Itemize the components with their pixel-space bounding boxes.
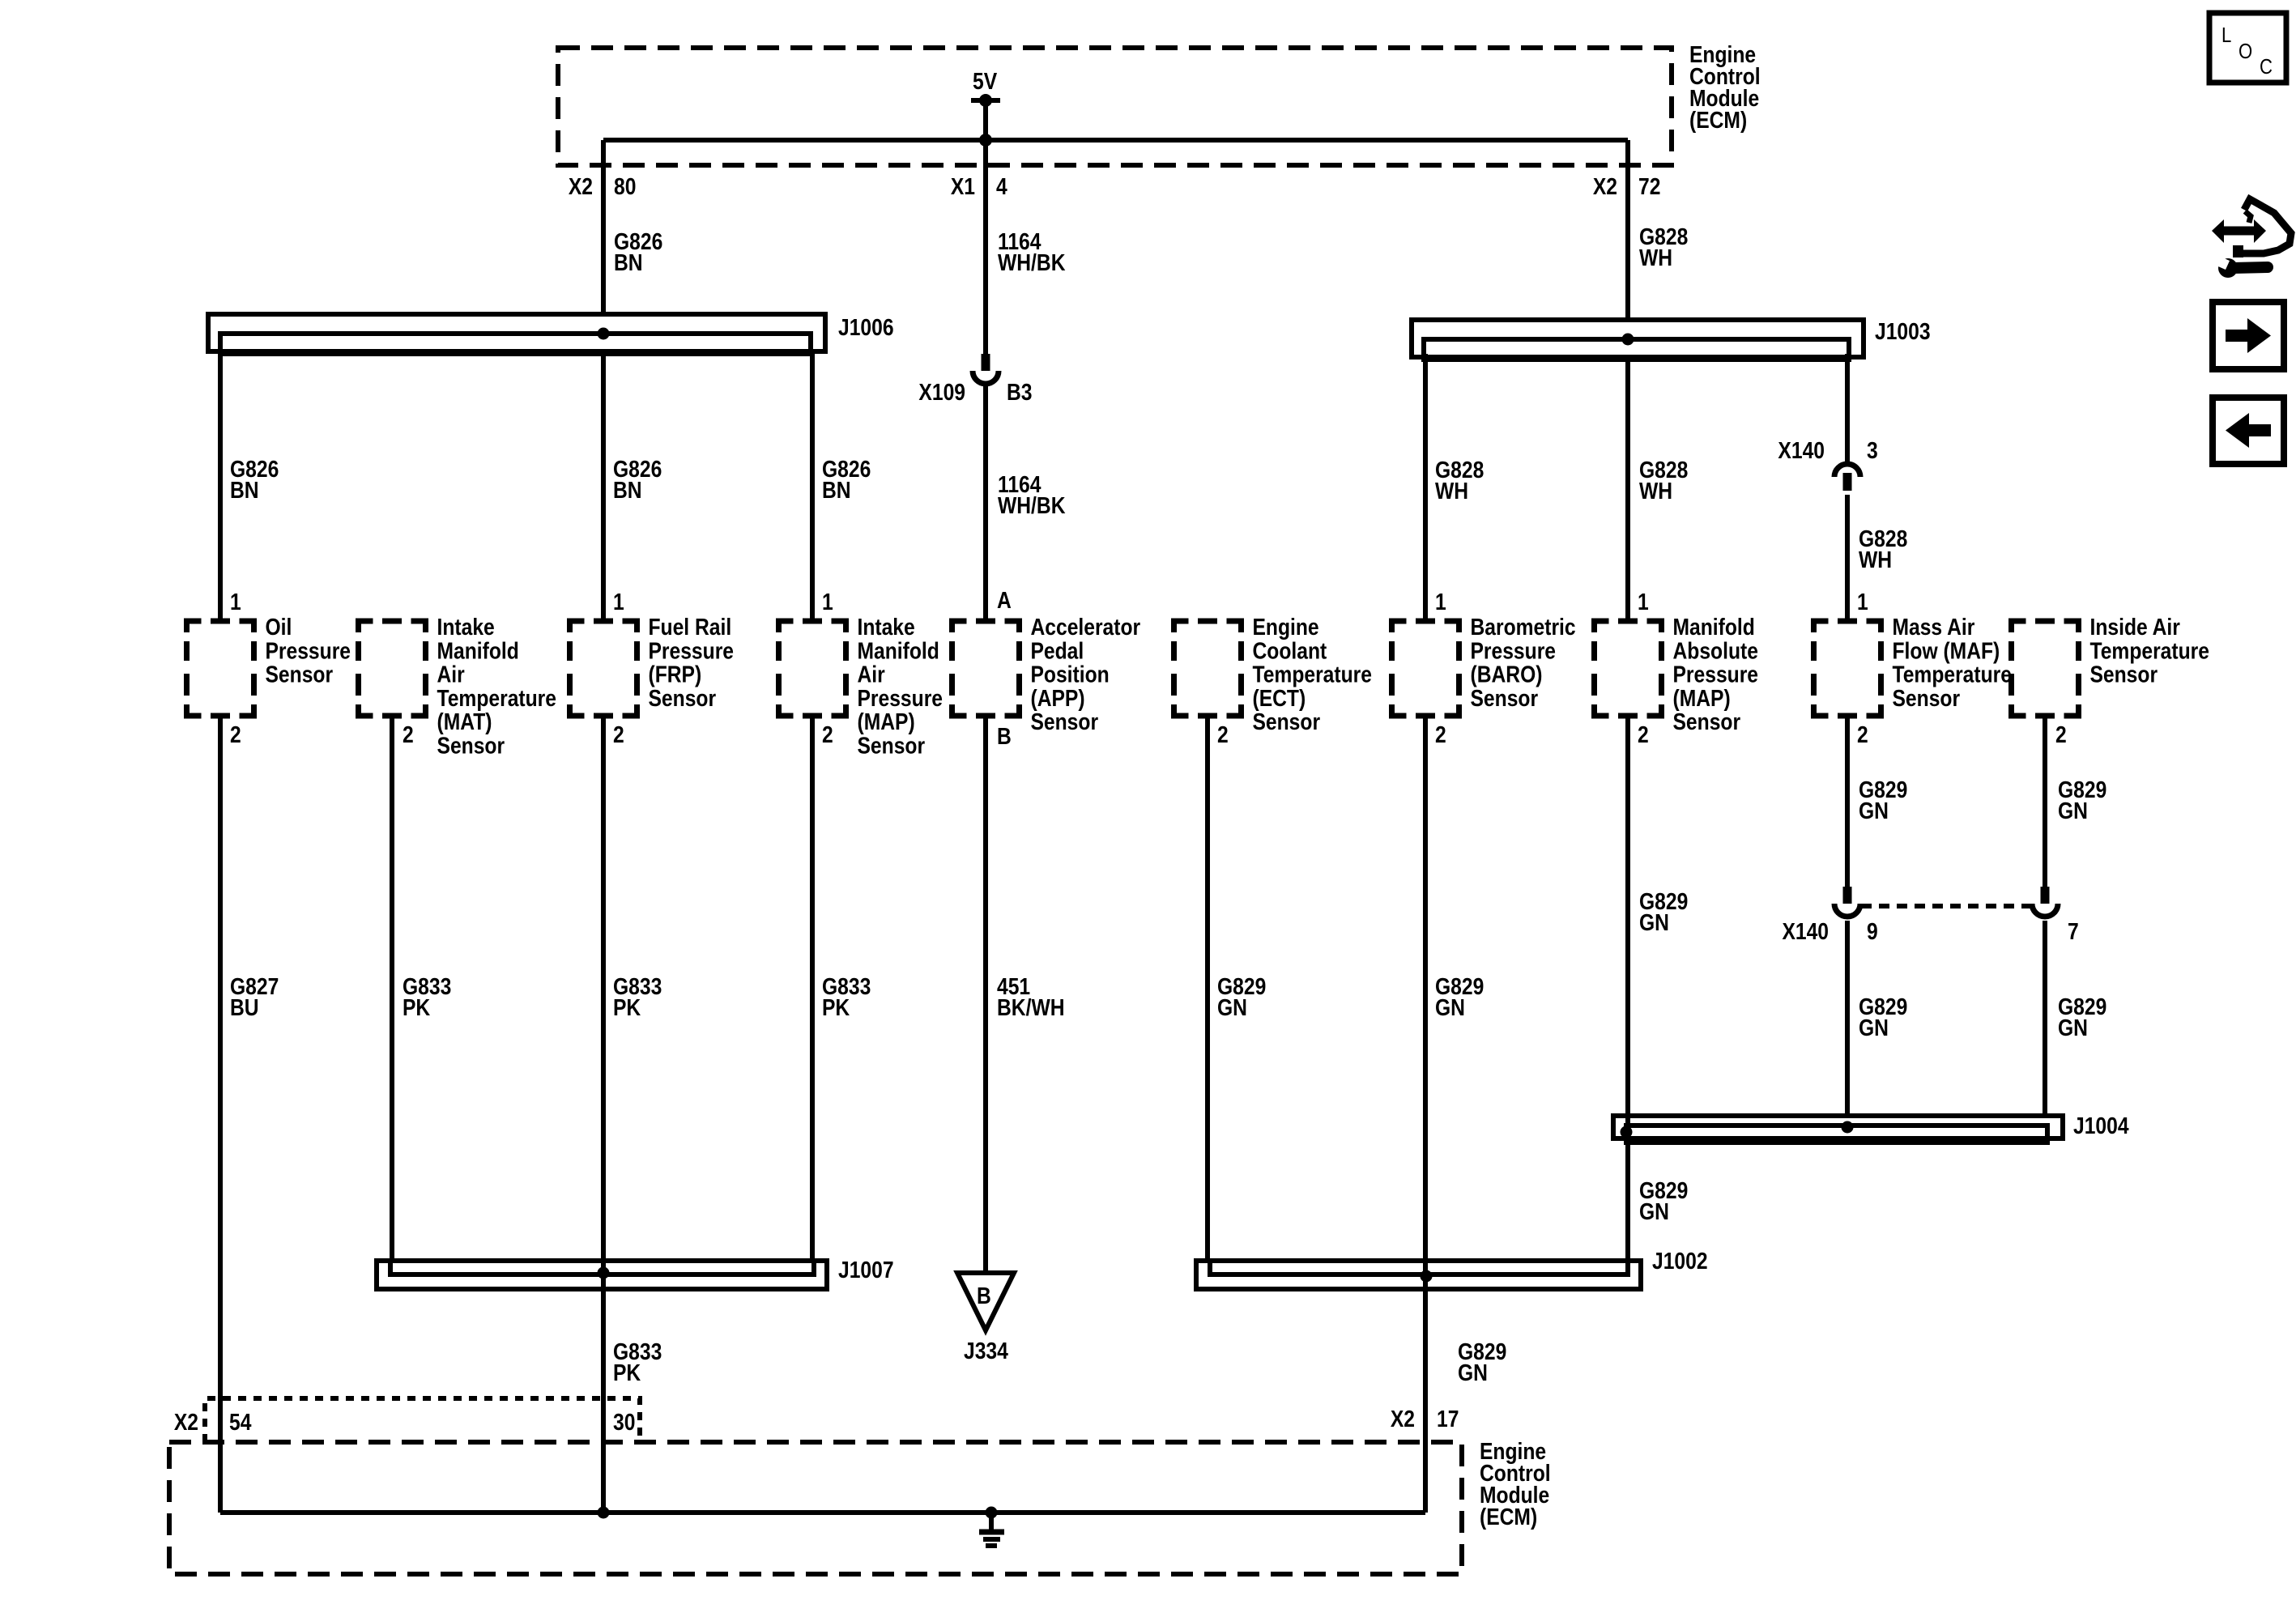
svg-text:Intake: Intake — [437, 614, 495, 640]
pin 2 oil — [230, 721, 241, 747]
svg-text:Sensor: Sensor — [2089, 662, 2158, 687]
svg-text:Pressure: Pressure — [265, 637, 351, 663]
svg-text:WH: WH — [1639, 478, 1672, 504]
wire J1006 to oil sensor — [218, 351, 223, 621]
label G833 PK col4 — [822, 973, 871, 1020]
svg-text:GN: GN — [1639, 909, 1669, 935]
svg-text:WH: WH — [1859, 547, 1892, 572]
svg-text:PK: PK — [613, 1360, 641, 1385]
wire J1006 to FRP sensor — [601, 351, 606, 621]
wire X109 to APP — [983, 384, 988, 621]
svg-text:WH/BK: WH/BK — [998, 492, 1066, 518]
svg-text:Sensor: Sensor — [1892, 685, 1960, 711]
svg-text:Sensor: Sensor — [857, 733, 925, 759]
wire MAT sensor to J1007 — [390, 716, 394, 1262]
splice J1006 — [208, 314, 825, 351]
svg-text:Air: Air — [437, 662, 466, 687]
node J1006 junction — [598, 328, 610, 340]
label G829 GN col9 upper — [1859, 777, 1907, 823]
svg-text:1: 1 — [1435, 589, 1446, 615]
svg-text:WH/BK: WH/BK — [998, 249, 1066, 275]
svg-text:2: 2 — [230, 721, 241, 747]
wire APP sensor to J334 — [983, 716, 988, 1273]
svg-text:GN: GN — [1639, 1198, 1669, 1224]
svg-text:BK/WH: BK/WH — [997, 994, 1065, 1020]
splice J1007 — [377, 1261, 827, 1289]
svg-text:Sensor: Sensor — [265, 662, 333, 687]
svg-text:BN: BN — [822, 477, 851, 503]
svg-text:GN: GN — [1217, 994, 1247, 1020]
pin 2 BARO — [1435, 721, 1446, 747]
node J1003 junction — [1622, 334, 1634, 346]
label J1004 — [2073, 1113, 2129, 1138]
wire X2-72 leg — [1625, 140, 1630, 320]
wire X140-7 to J1004 — [2043, 921, 2047, 1116]
label G833 PK col3 lower — [613, 1338, 662, 1385]
svg-text:Pressure: Pressure — [648, 637, 734, 663]
svg-text:(MAT): (MAT) — [437, 709, 492, 734]
label G833 PK col3 — [613, 973, 662, 1020]
BARO sensor — [1392, 621, 1459, 716]
svg-text:Manifold: Manifold — [1673, 614, 1755, 640]
wire MAF sensor to X140-9 — [1845, 716, 1850, 888]
svg-text:1: 1 — [613, 589, 624, 615]
wire BARO sensor through J1002 to ECM — [1423, 716, 1428, 1442]
svg-text:Air: Air — [857, 662, 885, 687]
MAF temperature sensor — [1814, 621, 1881, 716]
svg-text:3: 3 — [1867, 437, 1878, 463]
label X140 7 — [2068, 918, 2079, 944]
svg-text:X2: X2 — [174, 1409, 198, 1435]
label 1164 WH/BK lower — [998, 471, 1066, 518]
label G826 BN col4 — [822, 456, 871, 503]
ECM bottom dashed box — [169, 1442, 1462, 1574]
manifold MAP sensor — [1595, 621, 1662, 716]
pin 30 — [613, 1409, 635, 1435]
label 1164 WH/BK upper — [998, 228, 1066, 275]
APP sensor — [952, 621, 1020, 716]
pin A APP — [997, 587, 1012, 613]
svg-text:Pressure: Pressure — [857, 685, 943, 711]
intake MAP sensor — [779, 621, 846, 716]
svg-text:(ECM): (ECM) — [1480, 1504, 1537, 1530]
svg-text:Position: Position — [1031, 662, 1110, 687]
label B in J334 — [977, 1283, 991, 1308]
label G826 BN upper — [614, 228, 662, 275]
label 451 BK/WH — [997, 973, 1065, 1020]
svg-text:Manifold: Manifold — [437, 637, 519, 663]
wire FRP sensor through J1007 to ground rail — [601, 716, 606, 1513]
pin 2 manifold MAP — [1638, 721, 1649, 747]
svg-text:17: 17 — [1437, 1406, 1459, 1432]
label X140 3 — [1778, 437, 1825, 463]
svg-text:Pressure: Pressure — [1673, 662, 1759, 687]
ECM bottom label — [1480, 1438, 1551, 1530]
wire X140-3 to MAF sensor — [1845, 495, 1850, 621]
ECT sensor — [1174, 621, 1242, 716]
label J1006 — [838, 314, 894, 340]
label G829 GN col7 lower — [1458, 1338, 1506, 1385]
svg-text:J1003: J1003 — [1875, 318, 1931, 344]
svg-text:2: 2 — [1435, 721, 1446, 747]
svg-text:GN: GN — [1458, 1360, 1488, 1385]
node bus tap — [979, 134, 992, 147]
pin X2 80 — [569, 173, 593, 199]
svg-text:Sensor: Sensor — [1470, 685, 1538, 711]
svg-text:(APP): (APP) — [1031, 685, 1085, 711]
svg-text:L: L — [2221, 23, 2231, 47]
svg-text:Sensor: Sensor — [1673, 709, 1741, 734]
wire X1-4 leg — [983, 140, 988, 354]
wire ECT sensor to J1002 — [1205, 716, 1210, 1262]
svg-text:GN: GN — [1859, 798, 1889, 823]
svg-text:Engine: Engine — [1252, 614, 1318, 640]
svg-text:C: C — [2260, 55, 2273, 79]
svg-text:Sensor: Sensor — [1252, 709, 1320, 734]
svg-text:BN: BN — [613, 477, 642, 503]
label X140 9 — [1782, 918, 1829, 944]
wire oil sensor to ground rail — [218, 716, 223, 1513]
splice J1003 — [1412, 320, 1864, 357]
pin 1 MAF — [1857, 589, 1868, 615]
pin 1 intake MAP — [822, 589, 833, 615]
svg-text:A: A — [997, 587, 1012, 613]
svg-text:J1007: J1007 — [838, 1257, 894, 1283]
diagnostic tool icon — [2223, 227, 2255, 236]
label J334 — [964, 1338, 1008, 1364]
svg-text:Fuel Rail: Fuel Rail — [648, 614, 731, 640]
label X109 B3 — [918, 379, 965, 405]
pin 2 FRP — [613, 721, 624, 747]
wire J1004 to J1002 — [1625, 1138, 1630, 1262]
svg-text:BN: BN — [614, 249, 643, 275]
LOC info box icon — [2209, 13, 2286, 83]
node J1004 junction W8 — [1621, 1126, 1633, 1138]
label J1003 — [1875, 318, 1931, 344]
ground symbol — [989, 1513, 994, 1530]
svg-text:X109: X109 — [918, 379, 965, 405]
svg-text:(ECM): (ECM) — [1689, 107, 1747, 133]
svg-text:1: 1 — [822, 589, 833, 615]
svg-text:GN: GN — [2058, 798, 2088, 823]
svg-text:Sensor: Sensor — [648, 685, 716, 711]
label J1007 — [838, 1257, 894, 1283]
inside air temperature sensor — [2012, 621, 2079, 716]
svg-text:(BARO): (BARO) — [1470, 662, 1542, 687]
svg-text:Sensor: Sensor — [1031, 709, 1099, 734]
svg-text:Oil: Oil — [265, 614, 292, 640]
svg-text:X2: X2 — [1593, 173, 1617, 199]
svg-text:B3: B3 — [1007, 379, 1033, 405]
connector X140 pin 3 — [1834, 464, 1860, 477]
splice J1004 — [1613, 1116, 2063, 1138]
pin strip X2 54-30 dotted box — [205, 1398, 640, 1442]
ground rail inside ECM — [220, 1510, 1425, 1515]
pin 2 inside air — [2055, 721, 2067, 747]
svg-text:(ECT): (ECT) — [1252, 685, 1306, 711]
svg-text:72: 72 — [1638, 173, 1660, 199]
pin 2 intake MAP — [822, 721, 833, 747]
bus wire — [603, 138, 1628, 143]
svg-text:O: O — [2238, 40, 2252, 63]
ECM top label — [1689, 41, 1761, 133]
svg-text:(FRP): (FRP) — [648, 662, 701, 687]
svg-text:WH: WH — [1639, 245, 1672, 270]
node J1004 junction W9 — [1842, 1121, 1854, 1134]
svg-text:B: B — [997, 723, 1012, 749]
FRP sensor — [570, 621, 637, 716]
wire 5V to bus — [983, 100, 988, 140]
label G828 WH col8 — [1639, 457, 1688, 504]
svg-text:9: 9 — [1867, 918, 1878, 944]
label G829 GN col6 — [1217, 973, 1266, 1020]
svg-text:Barometric: Barometric — [1470, 614, 1575, 640]
svg-text:J1002: J1002 — [1652, 1248, 1708, 1274]
svg-text:(MAP): (MAP) — [857, 709, 914, 734]
svg-text:1: 1 — [230, 589, 241, 615]
wire J1003 to manifold MAP sensor — [1625, 357, 1630, 621]
svg-text:Absolute: Absolute — [1673, 637, 1758, 663]
svg-text:1: 1 — [1857, 589, 1868, 615]
svg-text:GN: GN — [1435, 994, 1465, 1020]
label G829 GN col10 lower — [2058, 994, 2106, 1040]
svg-text:GN: GN — [2058, 1015, 2088, 1040]
svg-text:X2: X2 — [569, 173, 593, 199]
MAT sensor — [359, 621, 426, 716]
wire manifold MAP sensor through J1004 to J1002 — [1625, 716, 1630, 1262]
svg-text:Pedal: Pedal — [1031, 637, 1084, 663]
pin 1 FRP — [613, 589, 624, 615]
label G833 PK col2 — [403, 973, 451, 1020]
dashed link X140-9 to X140-7 — [1861, 904, 2031, 908]
label G829 GN col8 lower — [1639, 1177, 1688, 1224]
svg-text:Manifold: Manifold — [857, 637, 939, 663]
svg-text:X140: X140 — [1778, 437, 1825, 463]
wire J1003 to BARO sensor — [1423, 354, 1428, 621]
svg-text:Temperature: Temperature — [2089, 637, 2209, 663]
svg-text:Mass Air: Mass Air — [1892, 614, 1974, 640]
svg-text:7: 7 — [2068, 918, 2079, 944]
svg-text:Flow (MAF): Flow (MAF) — [1892, 637, 2000, 663]
pin X2 72 — [1593, 173, 1617, 199]
connector X109 — [982, 354, 990, 371]
svg-text:2: 2 — [2055, 721, 2067, 747]
svg-text:PK: PK — [822, 994, 850, 1020]
svg-text:2: 2 — [1857, 721, 1868, 747]
label G829 GN col7 — [1435, 973, 1484, 1020]
label G829 GN col9 lower — [1859, 994, 1907, 1040]
pin 1 BARO — [1435, 589, 1446, 615]
pin X1 4 — [951, 173, 975, 199]
svg-text:PK: PK — [613, 994, 641, 1020]
svg-text:Temperature: Temperature — [1892, 662, 2011, 687]
node FRP ground junction — [598, 1507, 610, 1519]
svg-text:BN: BN — [230, 477, 259, 503]
wire inside air sensor to X140-7 — [2043, 716, 2047, 888]
node J1002 junction — [1421, 1270, 1433, 1283]
svg-text:J334: J334 — [964, 1338, 1008, 1364]
wire J1002 to ECM pin 17 — [1423, 1289, 1428, 1513]
svg-text:J1004: J1004 — [2073, 1113, 2129, 1138]
pin 2 MAF — [1857, 721, 1868, 747]
svg-text:Inside Air: Inside Air — [2089, 614, 2180, 640]
svg-text:B: B — [977, 1283, 991, 1308]
node ground stub junction — [986, 1507, 998, 1519]
pin 1 oil — [230, 589, 241, 615]
svg-text:Temperature: Temperature — [437, 685, 556, 711]
svg-text:Temperature: Temperature — [1252, 662, 1371, 687]
label G828 WH upper — [1639, 223, 1688, 270]
svg-text:(MAP): (MAP) — [1673, 685, 1731, 711]
svg-text:GN: GN — [1859, 1015, 1889, 1040]
5V supply symbol — [971, 98, 1000, 103]
wire X2-80 leg — [601, 140, 606, 314]
wire X140-9 to J1004 — [1845, 921, 1850, 1116]
label G828 WH col7 — [1435, 457, 1484, 504]
wire J1003 to X140-3 — [1845, 354, 1850, 462]
svg-text:2: 2 — [403, 721, 414, 747]
pin B APP — [997, 723, 1012, 749]
svg-text:2: 2 — [822, 721, 833, 747]
wire J1006 to intake MAP sensor — [810, 354, 815, 621]
label G826 BN col3 — [613, 456, 662, 503]
svg-text:Coolant: Coolant — [1252, 637, 1327, 663]
svg-text:PK: PK — [403, 994, 431, 1020]
pin X2 54 — [174, 1409, 198, 1435]
svg-text:Pressure: Pressure — [1470, 637, 1556, 663]
connector X140 pin 7 — [2041, 887, 2050, 904]
svg-text:Intake: Intake — [857, 614, 914, 640]
svg-text:80: 80 — [614, 173, 636, 199]
pin 1 manifold MAP — [1638, 589, 1649, 615]
svg-text:X2: X2 — [1391, 1406, 1415, 1432]
label G829 GN col10 upper — [2058, 777, 2106, 823]
svg-text:2: 2 — [1217, 721, 1229, 747]
pin X2 17 — [1391, 1406, 1415, 1432]
label G827 BU — [230, 973, 279, 1020]
svg-text:BU: BU — [230, 994, 259, 1020]
label G828 WH col9 — [1859, 526, 1907, 572]
svg-text:1: 1 — [1638, 589, 1649, 615]
back arrow icon — [2213, 398, 2284, 464]
pin 2 MAT — [403, 721, 414, 747]
label G826 BN col1 — [230, 456, 279, 503]
forward arrow icon — [2213, 302, 2284, 369]
splice J1002 — [1196, 1261, 1641, 1289]
svg-text:Accelerator: Accelerator — [1031, 614, 1141, 640]
svg-text:54: 54 — [229, 1409, 251, 1435]
svg-text:X140: X140 — [1782, 918, 1829, 944]
svg-text:J1006: J1006 — [838, 314, 894, 340]
svg-text:2: 2 — [1638, 721, 1649, 747]
svg-text:30: 30 — [613, 1409, 635, 1435]
oil pressure sensor — [187, 621, 254, 716]
svg-text:Sensor: Sensor — [437, 733, 505, 759]
svg-text:2: 2 — [613, 721, 624, 747]
connector X140 pin 9 — [1843, 887, 1852, 904]
svg-text:X1: X1 — [951, 173, 975, 199]
label G829 GN col8 upper — [1639, 888, 1688, 935]
label J1002 — [1652, 1248, 1708, 1274]
svg-text:5V: 5V — [973, 68, 997, 94]
svg-text:WH: WH — [1435, 478, 1468, 504]
svg-text:4: 4 — [996, 173, 1007, 199]
wire intake MAP sensor to J1007 — [810, 716, 815, 1262]
ground J334 — [957, 1273, 1014, 1330]
node J1007 junction — [598, 1267, 610, 1279]
ECM top dashed box — [558, 48, 1672, 165]
pin 2 ECT — [1217, 721, 1229, 747]
